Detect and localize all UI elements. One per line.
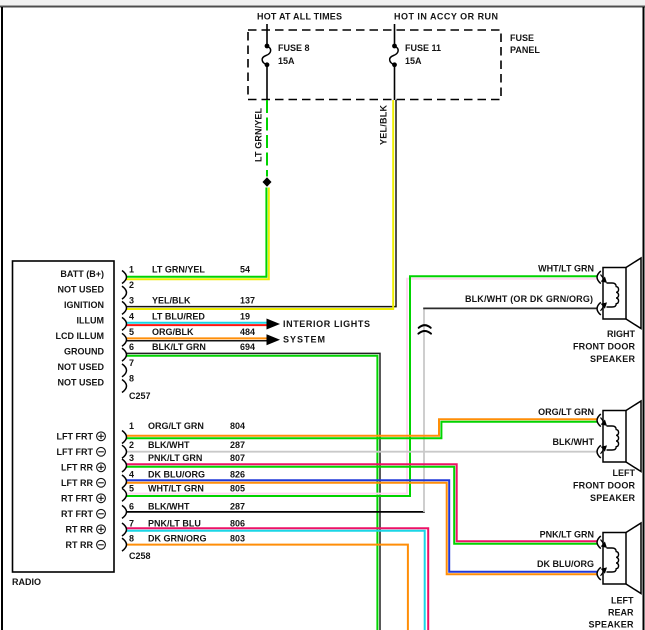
radio internal labels C258 bbox=[57, 432, 94, 551]
wire ORG/LT GRN 804 radio C258 pin 1 to left front door speaker bbox=[126, 419, 597, 438]
svg-text:PNK/LT GRN: PNK/LT GRN bbox=[540, 530, 594, 540]
radio box bbox=[13, 261, 115, 572]
svg-text:RADIO: RADIO bbox=[12, 577, 41, 587]
svg-text:137: 137 bbox=[240, 295, 255, 305]
svg-text:LFT FRT: LFT FRT bbox=[57, 432, 94, 442]
svg-text:RT RR: RT RR bbox=[66, 525, 94, 535]
svg-text:REAR: REAR bbox=[608, 608, 634, 618]
svg-text:PANEL: PANEL bbox=[510, 45, 540, 55]
svg-text:ORG/LT GRN: ORG/LT GRN bbox=[538, 407, 594, 417]
svg-text:RT FRT: RT FRT bbox=[61, 509, 93, 519]
svg-text:LFT FRT: LFT FRT bbox=[57, 447, 94, 457]
svg-text:ORG/BLK: ORG/BLK bbox=[152, 327, 194, 337]
svg-text:RT RR: RT RR bbox=[66, 540, 94, 550]
wire BLK/WHT 287 radio C258 pin 6 to right front door speaker bbox=[126, 308, 597, 512]
svg-text:C258: C258 bbox=[129, 551, 151, 561]
svg-text:HOT AT ALL TIMES: HOT AT ALL TIMES bbox=[257, 12, 342, 22]
svg-text:15A: 15A bbox=[278, 56, 295, 66]
svg-text:ORG/LT GRN: ORG/LT GRN bbox=[148, 421, 204, 431]
break symbol on BLK/WHT wire bbox=[418, 325, 431, 333]
svg-text:826: 826 bbox=[230, 470, 245, 480]
wire LT GRN/YEL 54 from splice to radio pin 1 bbox=[126, 188, 269, 280]
svg-text:4: 4 bbox=[129, 470, 134, 480]
fuse F11 output wire bbox=[394, 65, 396, 100]
fuse F8 feed wire bbox=[266, 24, 268, 46]
svg-text:YEL/BLK: YEL/BLK bbox=[152, 295, 191, 305]
svg-text:6: 6 bbox=[129, 342, 134, 352]
radio internal labels C257 bbox=[56, 269, 105, 388]
svg-text:FUSE 11: FUSE 11 bbox=[405, 43, 441, 53]
svg-text:287: 287 bbox=[230, 440, 245, 450]
svg-text:1: 1 bbox=[129, 264, 134, 274]
svg-text:SYSTEM: SYSTEM bbox=[283, 335, 325, 345]
svg-text:806: 806 bbox=[230, 518, 245, 528]
svg-text:BATT (B+): BATT (B+) bbox=[60, 269, 104, 279]
svg-text:LEFT: LEFT bbox=[613, 468, 636, 478]
wire PNK/LT GRN 807 radio C258 pin 3 to left rear speaker bbox=[126, 464, 597, 543]
svg-text:7: 7 bbox=[129, 518, 134, 528]
svg-text:7: 7 bbox=[129, 358, 134, 368]
fuse F8 bbox=[262, 43, 309, 67]
polarity symbols C258 bbox=[97, 432, 106, 549]
svg-text:NOT USED: NOT USED bbox=[57, 362, 104, 372]
arrow to interior lights system (lower) bbox=[267, 334, 281, 345]
svg-text:804: 804 bbox=[230, 421, 245, 431]
svg-text:LFT RR: LFT RR bbox=[61, 478, 93, 488]
svg-text:19: 19 bbox=[240, 311, 250, 321]
arrow to interior lights system (upper) bbox=[267, 319, 281, 330]
svg-text:BLK/WHT: BLK/WHT bbox=[553, 437, 595, 447]
svg-text:BLK/WHT: BLK/WHT bbox=[148, 440, 190, 450]
svg-text:FRONT DOOR: FRONT DOOR bbox=[573, 342, 636, 352]
svg-text:SPEAKER: SPEAKER bbox=[589, 620, 635, 630]
svg-text:INTERIOR LIGHTS: INTERIOR LIGHTS bbox=[283, 319, 370, 329]
svg-text:LCD ILLUM: LCD ILLUM bbox=[56, 331, 105, 341]
fuse F11 bbox=[390, 43, 441, 67]
wire name labels C257 bbox=[152, 264, 255, 352]
svg-text:RT FRT: RT FRT bbox=[61, 494, 93, 504]
svg-text:WHT/LT GRN: WHT/LT GRN bbox=[148, 484, 204, 494]
svg-text:54: 54 bbox=[240, 264, 250, 274]
speaker left front door bbox=[597, 401, 641, 472]
svg-text:807: 807 bbox=[230, 453, 245, 463]
svg-text:C257: C257 bbox=[129, 391, 151, 401]
svg-text:HOT IN ACCY OR RUN: HOT IN ACCY OR RUN bbox=[394, 12, 498, 22]
svg-text:RIGHT: RIGHT bbox=[607, 329, 636, 339]
svg-text:694: 694 bbox=[240, 342, 255, 352]
svg-text:IGNITION: IGNITION bbox=[64, 300, 104, 310]
speaker right front door bbox=[597, 258, 641, 329]
svg-text:FUSE: FUSE bbox=[510, 33, 534, 43]
svg-text:LT GRN/YEL: LT GRN/YEL bbox=[254, 108, 264, 163]
connector C258 pins bbox=[122, 431, 127, 552]
svg-text:NOT USED: NOT USED bbox=[57, 285, 104, 295]
svg-text:LFT RR: LFT RR bbox=[61, 463, 93, 473]
wire LT BLU/RED 19 radio pin 4 to interior lights system bbox=[126, 323, 267, 325]
svg-text:15A: 15A bbox=[405, 56, 422, 66]
svg-text:LT BLU/RED: LT BLU/RED bbox=[152, 311, 205, 321]
svg-text:FUSE 8: FUSE 8 bbox=[278, 43, 310, 53]
svg-text:5: 5 bbox=[129, 327, 134, 337]
svg-text:6: 6 bbox=[129, 501, 134, 511]
svg-text:BLK/WHT (OR DK GRN/ORG): BLK/WHT (OR DK GRN/ORG) bbox=[465, 294, 593, 304]
svg-text:1: 1 bbox=[129, 421, 134, 431]
svg-text:3: 3 bbox=[129, 295, 134, 305]
wire name labels C258 bbox=[148, 421, 245, 544]
wire YEL/BLK 137 from fuse 11 to radio pin 3 bbox=[126, 100, 396, 309]
splice node bbox=[263, 177, 272, 187]
svg-text:NOT USED: NOT USED bbox=[57, 378, 104, 388]
svg-text:8: 8 bbox=[129, 374, 134, 384]
speaker left rear bbox=[597, 523, 641, 594]
label LEFT FRONT DOOR SPEAKER bbox=[573, 468, 636, 503]
svg-text:BLK/LT GRN: BLK/LT GRN bbox=[152, 342, 206, 352]
svg-text:803: 803 bbox=[230, 534, 245, 544]
svg-text:3: 3 bbox=[129, 453, 134, 463]
svg-text:SPEAKER: SPEAKER bbox=[590, 493, 636, 503]
svg-text:484: 484 bbox=[240, 327, 255, 337]
svg-text:DK BLU/ORG: DK BLU/ORG bbox=[537, 559, 594, 569]
svg-text:805: 805 bbox=[230, 484, 245, 494]
svg-text:287: 287 bbox=[230, 501, 245, 511]
connector C257 pins bbox=[122, 271, 127, 393]
svg-text:PNK/LT BLU: PNK/LT BLU bbox=[148, 518, 201, 528]
svg-text:5: 5 bbox=[129, 484, 134, 494]
wire DK BLU/ORG 826 radio C258 pin 4 to left rear speaker bbox=[126, 480, 597, 574]
svg-text:DK BLU/ORG: DK BLU/ORG bbox=[148, 470, 205, 480]
wire ORG/BLK 484 radio pin 5 to interior lights system bbox=[126, 338, 267, 340]
wire WHT/LT GRN 805 radio C258 pin 5 to right front door speaker bbox=[126, 276, 597, 496]
wire BLK/WHT 287 radio C258 pin 2 to left front door speaker bbox=[126, 451, 597, 453]
fuse F8 output wire bbox=[266, 65, 268, 100]
svg-text:PNK/LT GRN: PNK/LT GRN bbox=[148, 453, 202, 463]
svg-text:LT GRN/YEL: LT GRN/YEL bbox=[152, 264, 205, 274]
svg-text:BLK/WHT: BLK/WHT bbox=[148, 501, 190, 511]
wire LT GRN/YEL dashed segment from fuse 8 bbox=[266, 100, 268, 177]
svg-text:SPEAKER: SPEAKER bbox=[590, 354, 636, 364]
svg-text:2: 2 bbox=[129, 280, 134, 290]
svg-text:WHT/LT GRN: WHT/LT GRN bbox=[538, 264, 594, 274]
wire BLK/LT GRN 694 radio pin 6 to ground (off page) bbox=[126, 353, 380, 630]
wire DK GRN/ORG 803 radio C258 pin 8 (off page bottom) bbox=[126, 545, 408, 630]
wire PNK/LT BLU 806 radio C258 pin 7 (off page bottom) bbox=[126, 528, 428, 630]
svg-text:4: 4 bbox=[129, 311, 134, 321]
svg-text:2: 2 bbox=[129, 440, 134, 450]
fuse panel box bbox=[248, 30, 540, 100]
fuse F11 feed wire bbox=[394, 24, 396, 46]
svg-text:GROUND: GROUND bbox=[64, 347, 104, 357]
svg-text:8: 8 bbox=[129, 534, 134, 544]
svg-text:DK GRN/ORG: DK GRN/ORG bbox=[148, 534, 207, 544]
svg-text:FRONT DOOR: FRONT DOOR bbox=[573, 481, 636, 491]
label RIGHT FRONT DOOR SPEAKER bbox=[573, 329, 636, 364]
svg-text:ILLUM: ILLUM bbox=[77, 316, 105, 326]
label LEFT REAR SPEAKER bbox=[589, 596, 635, 630]
svg-text:LEFT: LEFT bbox=[611, 596, 634, 606]
svg-text:YEL/BLK: YEL/BLK bbox=[379, 105, 389, 146]
